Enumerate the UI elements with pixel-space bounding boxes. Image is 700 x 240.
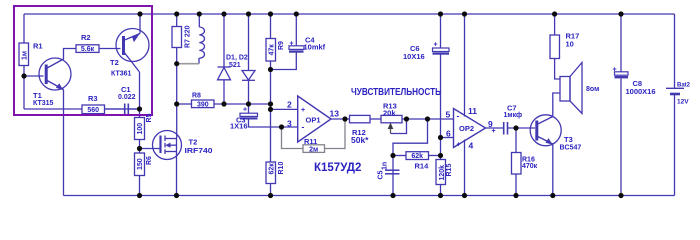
node R17 on top rail — [552, 11, 557, 16]
feedback loop R11 (grey wires) — [325, 119, 346, 149]
wire R13 to OP2 pin5 — [402, 118, 454, 120]
wire T1 emitter down — [63, 90, 65, 196]
svg-text:47к: 47к — [268, 44, 275, 56]
wire R17 to speaker — [555, 59, 560, 80]
inductor L (4 loops) — [199, 27, 204, 58]
wire T1 base lead — [24, 75, 44, 77]
svg-text:R5: R5 — [146, 113, 153, 122]
svg-text:BC547: BC547 — [560, 144, 582, 151]
wire OP2 pin4 to bottom rail — [464, 140, 466, 196]
svg-text:62k: 62k — [411, 153, 423, 160]
wire C5 column to bottom rail — [392, 156, 394, 196]
wire D1 top — [223, 14, 225, 67]
wire C4 top — [295, 14, 297, 46]
wire battery top — [674, 14, 676, 88]
wire T3 collector to speaker — [553, 93, 560, 117]
svg-text:T2: T2 — [110, 58, 119, 67]
capacitor C8 electrolytic — [615, 72, 629, 79]
node C4 on top rail — [294, 11, 299, 16]
svg-text:0.022: 0.022 — [118, 94, 136, 101]
svg-text:D1, D2: D1, D2 — [226, 55, 248, 62]
resistor R2 — [76, 45, 99, 53]
svg-text:6: 6 — [446, 128, 451, 138]
svg-text:100: 100 — [137, 123, 144, 135]
op-amp OP1 — [298, 96, 331, 142]
node R16 on bottom rail — [513, 193, 518, 198]
wire T1 collector to R2 — [64, 49, 77, 60]
svg-text:1мкф: 1мкф — [504, 112, 523, 119]
node R9 C4 — [268, 67, 273, 72]
wire pin5 net down jog to R14 — [393, 119, 428, 156]
svg-text:8ом: 8ом — [586, 86, 599, 93]
svg-text:2: 2 — [287, 100, 292, 110]
svg-text:+: + — [434, 42, 438, 49]
wire R7 bottom to drain column — [176, 48, 178, 139]
svg-text:T3: T3 — [564, 135, 573, 144]
wire OP1 output — [331, 118, 350, 120]
transistor T2 KT361 — [116, 29, 149, 73]
resistor R5 — [135, 118, 145, 140]
wire OP2 pin6 lead — [441, 137, 454, 139]
svg-text:T1: T1 — [33, 91, 42, 100]
svg-text:1n: 1n — [382, 162, 389, 170]
resistor R3 — [82, 105, 105, 114]
svg-text:КТ315: КТ315 — [33, 100, 54, 107]
node D2 C3 signal — [246, 101, 251, 106]
wire C8 bottom — [620, 79, 622, 196]
node coil on top rail — [197, 11, 202, 16]
op-amp OP2 — [454, 109, 486, 148]
node R7 coil junction — [174, 61, 179, 66]
svg-text:+: + — [457, 141, 461, 148]
svg-text:560: 560 — [87, 107, 99, 114]
wire R15 to bottom rail — [440, 185, 442, 196]
svg-text:+: + — [290, 41, 294, 48]
node signal to R9 column — [268, 101, 273, 106]
svg-text:R8: R8 — [192, 93, 201, 100]
node C8 on top rail — [618, 11, 623, 16]
svg-text:C1: C1 — [121, 85, 131, 94]
wire coil top — [198, 14, 200, 27]
svg-text:13: 13 — [330, 109, 340, 119]
node pin4 on bottom rail — [462, 193, 467, 198]
svg-text:OP2: OP2 — [459, 124, 474, 133]
svg-text:+: + — [613, 66, 617, 73]
capacitor C1 — [105, 104, 140, 115]
node T1 base — [21, 73, 26, 78]
wire D2 bottom — [248, 80, 250, 104]
svg-text:12V: 12V — [677, 99, 689, 106]
node T2 emitter on top rail — [137, 11, 142, 16]
node T3 emitter on bottom rail — [550, 193, 555, 198]
resistor R8 — [192, 100, 215, 108]
node C5 on bottom rail — [390, 193, 395, 198]
svg-text:120k: 120k — [439, 165, 446, 181]
wire battery bottom — [674, 95, 676, 196]
transistor T3 BC547 — [530, 115, 561, 146]
node C7 R16 T3 base — [513, 125, 518, 130]
svg-text:390: 390 — [197, 102, 209, 109]
svg-text:R1: R1 — [33, 42, 43, 51]
wire C8 top — [620, 14, 622, 72]
svg-text:C5: C5 — [378, 170, 385, 179]
resistor R17 — [550, 35, 560, 59]
resistor R11 — [303, 145, 325, 153]
resistor R16 — [512, 153, 522, 175]
resistor R15 — [436, 160, 446, 185]
svg-text:+: + — [492, 128, 496, 135]
svg-text:+: + — [243, 106, 247, 113]
node pin6 C6 — [438, 135, 443, 140]
svg-text:К157УД2: К157УД2 — [314, 162, 361, 174]
node OP1 output — [342, 116, 347, 121]
svg-text:2м: 2м — [309, 146, 318, 153]
svg-text:КТ361: КТ361 — [111, 71, 132, 78]
wire R9 top — [270, 14, 272, 39]
wire C4 bottom to R9 node — [271, 53, 297, 70]
wire OP2 output to C7 — [486, 127, 504, 129]
svg-text:ЧУВСТВИТЕЛЬНОСТЬ: ЧУВСТВИТЕЛЬНОСТЬ — [351, 87, 441, 98]
svg-text:R11: R11 — [304, 137, 317, 146]
capacitor C3 electrolytic — [240, 113, 258, 119]
node D1 signal — [221, 101, 226, 106]
wire R7 top — [176, 14, 178, 27]
svg-text:R2: R2 — [81, 33, 91, 42]
node pin5 branch — [425, 116, 430, 121]
resistor R10 — [266, 162, 276, 184]
svg-text:62к: 62к — [268, 163, 275, 175]
svg-text:5.6к: 5.6к — [81, 46, 95, 53]
MOSFET T2 IRF740 — [153, 131, 182, 160]
svg-text:1X16: 1X16 — [230, 122, 248, 131]
node D2 on top rail — [246, 11, 251, 16]
node R14 left C5 — [390, 153, 395, 158]
wire R8 left — [177, 103, 192, 105]
svg-text:+: + — [301, 107, 305, 114]
node R7 on top rail — [174, 11, 179, 16]
wire inner box bottom — [24, 108, 140, 110]
svg-text:470к: 470к — [522, 163, 538, 170]
svg-text:R3: R3 — [88, 94, 98, 103]
wire R14 left lead — [393, 155, 406, 157]
wire MOSFET source to bottom rail — [176, 152, 178, 196]
svg-text:521: 521 — [229, 62, 241, 69]
resistor R1 — [19, 43, 29, 66]
node C8 on bottom rail — [618, 193, 623, 198]
diode D1 — [218, 67, 231, 80]
wire OP1 pin2 lead — [271, 108, 298, 110]
svg-text:Bat2: Bat2 — [677, 82, 691, 88]
wire R9 bottom to R10 — [270, 61, 272, 162]
wire C6 down crossing to pin6 node and R15 — [440, 55, 442, 160]
resistor R9 — [266, 39, 276, 62]
wire top rail — [24, 13, 675, 15]
node wiper tap — [404, 116, 409, 121]
capacitor C7 — [504, 122, 508, 135]
wire R8 to D1 to D2 to R9 column — [214, 103, 271, 105]
svg-text:-: - — [457, 110, 460, 120]
svg-text:10mkf: 10mkf — [304, 43, 326, 52]
resistor R12 — [350, 115, 371, 122]
node D1 on top rail — [221, 11, 226, 16]
wire MOSFET gate lead — [140, 148, 161, 150]
svg-text:5: 5 — [446, 110, 451, 120]
potentiometer R13 body — [381, 115, 402, 122]
wire C7 to T3 base — [508, 127, 536, 129]
svg-text:4: 4 — [469, 140, 474, 150]
node R8 drain junction — [174, 101, 179, 106]
wire R12 to R13 — [370, 118, 381, 120]
wire R5 R6 gap — [139, 140, 141, 154]
svg-text:10: 10 — [566, 40, 574, 49]
wire coil bottom connector (grey) — [177, 63, 199, 65]
node MOSFET source on bottom rail — [174, 193, 179, 198]
svg-text:R15: R15 — [446, 164, 453, 177]
svg-text:OP1: OP1 — [306, 115, 321, 124]
svg-text:R6: R6 — [146, 156, 153, 165]
wire R10 to bottom rail — [270, 184, 272, 196]
svg-text:IRF740: IRF740 — [185, 146, 213, 155]
resistor R6 — [135, 153, 145, 176]
svg-text:R7 220: R7 220 — [185, 25, 192, 48]
capacitor C5 — [385, 170, 400, 174]
wire OP2 pin11 to top rail — [464, 14, 466, 117]
svg-text:11: 11 — [468, 106, 477, 116]
node R9 on top rail — [268, 11, 273, 16]
node R6 on bottom rail — [137, 193, 142, 198]
potentiometer R13 wiper arrow (grey) — [388, 123, 394, 134]
svg-text:R9: R9 — [278, 41, 285, 50]
wire bottom rail — [64, 195, 675, 197]
svg-text:R10: R10 — [278, 162, 285, 175]
wire T2 collector down to C1 node — [139, 72, 141, 118]
diode D2 — [242, 71, 255, 81]
capacitor C4 electrolytic — [289, 46, 304, 53]
transistor T1 KT315 — [39, 58, 71, 90]
wire T3 emitter to bottom rail — [552, 144, 554, 196]
resistor R14 — [406, 152, 429, 160]
node R14 right R15 C6 — [438, 153, 443, 158]
wire T2 emitter top — [139, 14, 141, 34]
speaker — [560, 63, 582, 114]
svg-text:50k*: 50k* — [351, 135, 369, 145]
svg-text:3: 3 — [287, 119, 292, 129]
node C1 R5 T2 collector — [137, 106, 142, 111]
wire R14 right lead — [429, 155, 441, 157]
wire D1 bottom — [223, 80, 225, 104]
wire pot wiper jog — [391, 119, 407, 134]
wire R2 to T2 base — [99, 48, 121, 50]
resistor R7 — [172, 27, 182, 48]
svg-text:-: - — [302, 122, 305, 132]
wire coil bottom stub — [198, 58, 200, 64]
node R10 on bottom rail — [268, 193, 273, 198]
svg-text:1000X16: 1000X16 — [626, 87, 656, 96]
wire R6 to bottom rail — [139, 176, 141, 196]
wire R17 top — [554, 14, 556, 35]
node MOSFET gate R5 R6 — [137, 146, 142, 151]
wire C6 top — [440, 14, 442, 48]
node R15 on bottom rail — [438, 193, 443, 198]
svg-text:10X16: 10X16 — [403, 52, 425, 61]
wire D2 top — [248, 14, 250, 71]
battery Bat2 — [666, 88, 684, 94]
svg-text:1м: 1м — [21, 51, 28, 60]
svg-text:20k: 20k — [383, 108, 396, 117]
node pin2 tap — [268, 107, 273, 112]
wire C3 top — [248, 104, 250, 113]
wire R16 top lead — [515, 128, 517, 153]
wire R16 to bottom rail — [515, 174, 517, 196]
node C6 on top rail — [438, 11, 443, 16]
node feedback pin3 — [279, 124, 284, 129]
svg-text:R14: R14 — [415, 162, 430, 171]
capacitor C6 electrolytic — [433, 48, 450, 55]
wire left column R1 line — [23, 14, 25, 109]
node pin11 on top rail — [462, 11, 467, 16]
wire C3 bottom to OP1 pin3 — [249, 120, 298, 128]
svg-text:150: 150 — [137, 158, 144, 170]
highlight box (purple) — [14, 6, 152, 115]
